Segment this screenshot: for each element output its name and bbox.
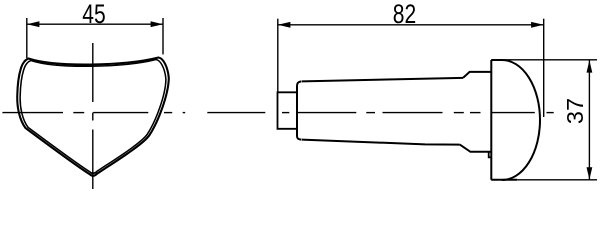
arrow left of 45 [27,21,40,27]
extension line right (down to dome tip) [543,19,545,117]
arrow top of 37 [587,60,593,72]
bottom step [460,145,492,152]
body bottom edge [302,140,460,145]
vertical centerline of left view [92,43,94,189]
horizontal centerline of right view [282,112,554,114]
extension line left (down to connector) [277,19,279,93]
svg-text:82: 82 [393,0,416,30]
shield inner contour [20,60,166,174]
svg-text:45: 45 [82,0,105,30]
dim 82 dimension line [278,19,544,117]
small tab near lens bottom [489,152,492,158]
horizontal centerline of left view [2,112,265,114]
lens top edge [491,59,503,61]
lens left edge [490,60,492,180]
top extension line [491,59,597,61]
extension line left [26,18,28,58]
lens bottom edge [491,179,517,181]
arrow right of 82 [531,22,544,28]
dome (half ellipse) [502,60,540,180]
connector (small rectangle at left) [278,92,298,129]
shield outer contour [17,58,169,176]
cone body [297,81,302,139]
arrow bottom of 37 [587,167,593,179]
dimension line [588,60,590,180]
dim 45 dimension line [27,18,163,58]
bottom extension line [491,179,597,181]
extension line right [162,18,164,54]
top step [463,72,491,78]
body top edge [302,78,463,82]
svg-text:37: 37 [562,98,588,124]
arrow left of 82 [278,22,291,28]
arrow right of 45 [151,21,163,27]
dim 37 [491,60,597,180]
